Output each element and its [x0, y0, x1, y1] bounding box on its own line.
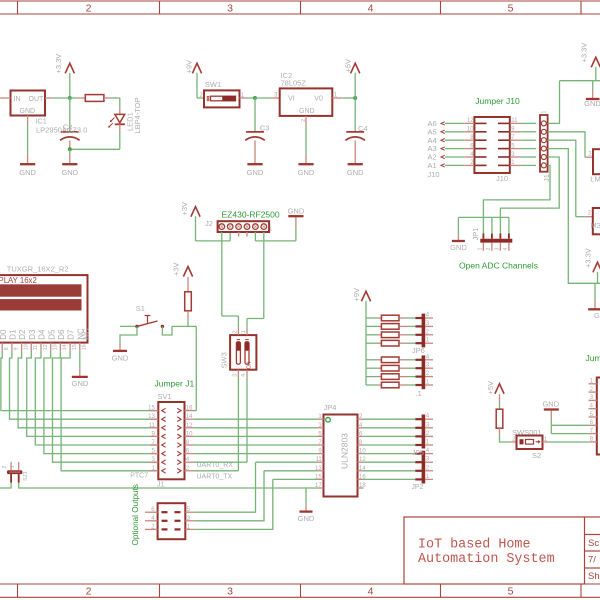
svg-text:16: 16 — [82, 344, 88, 350]
svg-text:GND: GND — [450, 243, 467, 252]
svg-text:1: 1 — [269, 227, 272, 233]
svg-text:2: 2 — [588, 211, 592, 217]
svg-text:11: 11 — [33, 345, 39, 351]
svg-text:GND: GND — [347, 168, 364, 177]
svg-text:D7: D7 — [67, 329, 76, 340]
svg-text:1: 1 — [478, 247, 484, 250]
svg-text:13: 13 — [148, 414, 155, 420]
svg-text:J10: J10 — [496, 174, 508, 183]
svg-text:12: 12 — [43, 344, 49, 350]
svg-text:LM35: LM35 — [590, 175, 600, 184]
svg-text:SW3: SW3 — [220, 352, 229, 368]
svg-text:1: 1 — [10, 465, 16, 468]
svg-text:11: 11 — [149, 423, 156, 429]
svg-text:1: 1 — [542, 111, 548, 114]
svg-text:14: 14 — [186, 414, 193, 420]
svg-text:2: 2 — [486, 247, 492, 250]
svg-text:78L05Z: 78L05Z — [281, 79, 307, 88]
svg-text:11: 11 — [511, 118, 518, 124]
svg-text:12: 12 — [186, 423, 193, 429]
svg-text:IN: IN — [14, 96, 21, 103]
svg-text:15: 15 — [315, 474, 322, 480]
svg-text:TUXGR_16X2_R2: TUXGR_16X2_R2 — [7, 264, 69, 273]
svg-text:4: 4 — [368, 2, 374, 14]
svg-text:ON: ON — [247, 361, 253, 369]
svg-text:7/: 7/ — [588, 555, 596, 566]
svg-text:10: 10 — [186, 431, 193, 437]
svg-text:15: 15 — [148, 406, 155, 412]
svg-text:V0: V0 — [314, 96, 323, 103]
svg-text:A1: A1 — [428, 161, 437, 170]
svg-text:GND: GND — [20, 108, 36, 115]
svg-text:+3.3V: +3.3V — [584, 248, 593, 268]
svg-text:IC1: IC1 — [35, 117, 47, 126]
svg-text:GND: GND — [298, 514, 315, 523]
svg-text:IoT based Home: IoT based Home — [418, 538, 531, 553]
svg-text:JP4: JP4 — [324, 403, 337, 412]
svg-text:Automation System: Automation System — [418, 552, 555, 567]
svg-text:OUT: OUT — [29, 96, 45, 103]
svg-text:Jumper J1: Jumper J1 — [155, 379, 195, 389]
svg-text:EZ430-RF2500: EZ430-RF2500 — [222, 210, 280, 220]
svg-text:D4: D4 — [38, 329, 47, 340]
svg-text:16: 16 — [186, 406, 193, 412]
svg-text:UART0_TX: UART0_TX — [197, 474, 233, 481]
svg-text:+3.3V: +3.3V — [580, 43, 589, 63]
svg-text:D1: D1 — [9, 329, 18, 340]
svg-text:+5V: +5V — [486, 381, 495, 395]
svg-text:14: 14 — [62, 344, 68, 350]
svg-text:10: 10 — [467, 127, 474, 133]
svg-text:J2: J2 — [205, 219, 213, 228]
svg-text:2: 2 — [233, 330, 239, 333]
svg-text:13: 13 — [53, 344, 59, 350]
svg-text:VI: VI — [288, 96, 295, 103]
svg-text:PTC7: PTC7 — [130, 472, 148, 479]
svg-text:GND: GND — [19, 168, 36, 177]
svg-text:4: 4 — [368, 586, 374, 598]
svg-text:5: 5 — [508, 586, 514, 598]
svg-text:4: 4 — [503, 247, 509, 250]
svg-text:+9V: +9V — [185, 60, 194, 74]
svg-text:JP5: JP5 — [412, 450, 424, 457]
svg-text:SJ3: SJ3 — [23, 472, 29, 481]
svg-text:D3: D3 — [28, 329, 37, 340]
svg-text:11: 11 — [315, 457, 322, 463]
svg-text:DISPLAY 16x2: DISPLAY 16x2 — [0, 276, 37, 285]
svg-text:D2: D2 — [18, 329, 27, 340]
svg-text:2: 2 — [86, 2, 92, 14]
svg-text:JP2: JP2 — [411, 484, 423, 491]
svg-text:GND: GND — [247, 168, 264, 177]
svg-text:Jumper: Jumper — [586, 353, 600, 363]
svg-text:GND: GND — [584, 99, 600, 108]
svg-text:2: 2 — [2, 466, 8, 469]
svg-text:LP2950ACZ3.0: LP2950ACZ3.0 — [36, 125, 87, 134]
svg-text:18: 18 — [359, 483, 366, 489]
svg-text:+5V: +5V — [343, 59, 352, 73]
svg-text:1: 1 — [241, 330, 247, 333]
svg-text:SW1: SW1 — [205, 80, 221, 89]
svg-text:LBP4-TOP: LBP4-TOP — [133, 97, 142, 133]
svg-text:GND: GND — [594, 311, 600, 320]
svg-text:ULN2803: ULN2803 — [340, 433, 350, 469]
svg-text:GND: GND — [72, 379, 89, 388]
svg-text:D5: D5 — [47, 329, 56, 340]
svg-text:9: 9 — [14, 347, 20, 350]
svg-text:C3: C3 — [260, 124, 270, 133]
svg-text:5: 5 — [508, 2, 514, 14]
svg-text:2: 2 — [86, 586, 92, 598]
svg-text:D0: D0 — [0, 329, 8, 340]
svg-text:GND: GND — [288, 207, 305, 216]
svg-text:+3V: +3V — [180, 202, 189, 216]
svg-text:Open ADC Channels: Open ADC Channels — [459, 261, 538, 271]
svg-text:Sc: Sc — [588, 538, 599, 549]
svg-text:+9V: +9V — [352, 288, 361, 302]
svg-text:UART0_RX: UART0_RX — [197, 462, 234, 469]
svg-text:Optional Outputs: Optional Outputs — [131, 484, 140, 545]
svg-text:4: 4 — [241, 374, 247, 377]
svg-text:3: 3 — [227, 2, 233, 14]
svg-text:3: 3 — [233, 374, 239, 377]
svg-text:M35: M35 — [591, 221, 600, 230]
svg-text:JP1: JP1 — [471, 228, 480, 241]
svg-text:C4: C4 — [358, 124, 368, 133]
svg-text:S1: S1 — [136, 304, 145, 313]
svg-text:+3.3V: +3.3V — [54, 54, 63, 74]
svg-text:GND: GND — [299, 108, 315, 115]
svg-text:Jumper J10: Jumper J10 — [475, 96, 520, 106]
svg-text:13: 13 — [315, 466, 322, 472]
svg-text:GND: GND — [61, 168, 78, 177]
svg-text:S2: S2 — [532, 451, 541, 460]
svg-text:GND: GND — [112, 353, 129, 362]
svg-text:GND: GND — [542, 399, 559, 408]
svg-text:J1: J1 — [157, 480, 165, 489]
svg-text:8: 8 — [4, 347, 10, 350]
svg-text:+3V: +3V — [172, 262, 181, 276]
svg-text:12: 12 — [467, 118, 474, 124]
svg-text:3: 3 — [227, 586, 233, 598]
svg-text:Sh: Sh — [588, 571, 600, 582]
svg-text:D6: D6 — [57, 329, 66, 340]
svg-text:10: 10 — [23, 344, 29, 350]
svg-text:NC: NC — [82, 328, 91, 340]
svg-text:.1: .1 — [416, 389, 422, 398]
svg-text:GND: GND — [298, 168, 315, 177]
svg-text:SV1: SV1 — [158, 392, 172, 401]
svg-text:3: 3 — [495, 247, 501, 250]
svg-text:J10: J10 — [428, 170, 440, 179]
svg-text:15: 15 — [72, 344, 78, 350]
svg-text:JP6: JP6 — [412, 346, 425, 355]
